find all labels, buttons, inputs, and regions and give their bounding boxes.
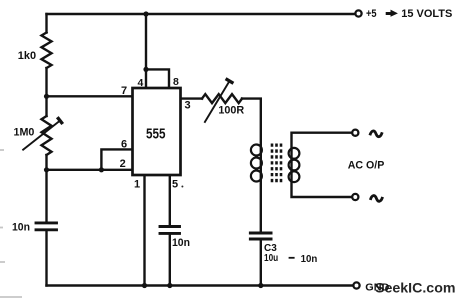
capacitor 10n left <box>36 223 57 230</box>
node junction pin2 bracket <box>99 167 104 172</box>
svg-text:100R: 100R <box>218 105 244 117</box>
wire pin 2 <box>47 169 134 171</box>
wire capacitor to ground rail <box>45 231 47 285</box>
wire bottom ground rail <box>47 284 354 286</box>
svg-text:1M0: 1M0 <box>14 126 35 138</box>
svg-text:2: 2 <box>120 158 126 170</box>
svg-text:10n: 10n <box>301 253 318 265</box>
terminal +V supply <box>355 10 361 16</box>
svg-text:+5: +5 <box>366 8 377 20</box>
value label dash <box>289 257 295 259</box>
supply range arrow <box>386 10 398 17</box>
svg-text:555: 555 <box>146 126 166 143</box>
potentiometer 100R wiper arrow <box>204 79 233 123</box>
AC symbol top <box>370 131 382 137</box>
svg-text:10n: 10n <box>12 222 30 234</box>
potentiometer 100R <box>202 94 242 103</box>
svg-text:8: 8 <box>173 76 179 88</box>
svg-text:1k0: 1k0 <box>18 50 36 62</box>
svg-text:10n: 10n <box>172 237 190 249</box>
svg-text:3: 3 <box>185 100 191 112</box>
svg-text:AC O/P: AC O/P <box>348 159 385 171</box>
wire transformer secondary loop <box>292 133 353 197</box>
capacitor C3 <box>250 233 271 239</box>
node junction pins 4-8 <box>143 67 148 72</box>
transformer T1 core <box>272 144 281 185</box>
svg-text:10u: 10u <box>264 252 278 264</box>
wire pin 7 <box>47 95 134 97</box>
capacitor 10n pin5 <box>160 227 180 234</box>
wire C3 to ground rail <box>260 241 262 286</box>
svg-text:5: 5 <box>172 179 178 191</box>
wire pin5 capacitor to ground <box>169 235 171 286</box>
wire pin 3 <box>180 97 202 99</box>
svg-text:7: 7 <box>121 85 127 97</box>
svg-text:4: 4 <box>138 77 144 89</box>
resistor 1k0 <box>42 33 52 69</box>
wire top supply rail <box>47 13 356 15</box>
svg-text:6: 6 <box>121 139 127 151</box>
svg-text:15 VOLTS: 15 VOLTS <box>401 8 452 20</box>
wire pin 1 to ground <box>143 175 145 286</box>
node junction 1k0-1M0 pin7 <box>44 94 49 99</box>
potentiometer 1M0 <box>42 116 52 155</box>
stray dot after pin 5 <box>181 186 183 188</box>
svg-text:SeekIC.com: SeekIC.com <box>375 280 456 296</box>
terminal AC output top <box>352 130 358 136</box>
node junction top rail <box>143 11 148 16</box>
terminal GND <box>353 282 359 288</box>
wire 1M0 to capacitor <box>45 155 47 221</box>
svg-text:1: 1 <box>134 179 140 191</box>
op-amp U1 555 timer body <box>133 88 181 175</box>
node junction pin5 ground <box>167 283 172 288</box>
potentiometer 1M0 wiper arrow <box>22 117 62 150</box>
AC symbol bottom <box>370 196 382 202</box>
wire pin 5 drop <box>169 175 171 225</box>
node junction pin1 ground <box>142 283 147 288</box>
wire 100R to transformer <box>242 99 261 232</box>
transformer T1 primary coil <box>251 145 262 182</box>
terminal AC output bottom <box>352 194 358 200</box>
wire bracket pin 6 to pin 2 <box>101 149 133 169</box>
transformer T1 secondary coil <box>289 148 300 182</box>
node junction C3 ground <box>258 283 263 288</box>
wire pins 4-8 supply drop <box>145 14 147 89</box>
wire bracket pin 4 to pin 8 <box>146 69 169 88</box>
node junction 1M0-cap pin2 <box>44 167 49 172</box>
scan noise marks left edge <box>0 150 22 297</box>
wire 1k0 to 1M0 <box>45 68 47 116</box>
wire left branch top <box>45 14 47 33</box>
